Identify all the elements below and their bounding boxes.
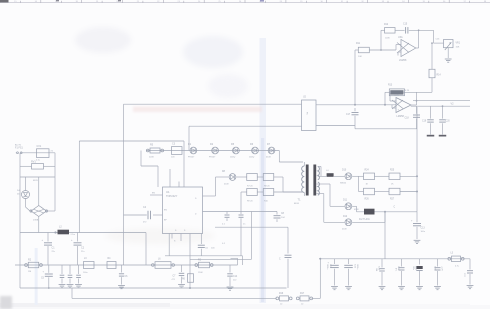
- scanner blue streak left: [35, 248, 38, 305]
- transformer T1 core: [306, 165, 316, 196]
- ghost bleed-through smudges: [75, 27, 248, 244]
- wire sec mid tap: [318, 184, 345, 206]
- svg-text:+12V: +12V: [441, 266, 443, 271]
- wire fb riser A: [380, 30, 382, 51]
- svg-text:100u: 100u: [83, 272, 87, 274]
- wire loop3 top: [79, 140, 184, 142]
- wire grid row2: [241, 191, 303, 193]
- bridge rectifier BR1: [30, 206, 48, 222]
- wire sense riser: [354, 50, 356, 105]
- ic U1 TNY266: [163, 187, 203, 234]
- optocoupler U2 PC817: [302, 96, 317, 130]
- connector J1 pins: [16, 152, 22, 154]
- svg-text:C15: C15: [403, 23, 408, 25]
- wire loop2 left: [188, 126, 190, 150]
- capacitor C4: [124, 206, 163, 223]
- wire secondary bus: [319, 258, 470, 260]
- capacitor C3: [171, 143, 182, 159]
- svg-text:11DQ: 11DQ: [230, 157, 236, 159]
- wire loop1 left: [123, 104, 125, 265]
- svg-text:C13: C13: [421, 228, 426, 230]
- wire grid right link: [282, 177, 284, 192]
- diode D11: [343, 200, 359, 211]
- svg-text:CX1: CX1: [37, 145, 42, 148]
- svg-text:C19: C19: [422, 121, 427, 123]
- wire under-ic rail2: [190, 258, 252, 260]
- ground bar C20: [439, 135, 447, 137]
- label fuse F1: [15, 143, 24, 149]
- svg-text:1000u: 1000u: [356, 264, 358, 269]
- ic pin stub top3: [157, 166, 159, 187]
- resistor R16: [276, 293, 292, 305]
- capacitor C5a small: [59, 265, 66, 288]
- svg-text:R9 20: R9 20: [247, 200, 253, 202]
- svg-text:2.2m: 2.2m: [71, 234, 76, 236]
- svg-text:SB560: SB560: [340, 183, 347, 185]
- wire bottom line C: [312, 259, 321, 299]
- svg-text:FR107: FR107: [209, 157, 216, 159]
- resistor R3: [195, 258, 213, 274]
- trimmer VR1: [444, 40, 461, 59]
- svg-text:C18: C18: [405, 117, 410, 119]
- capacitor C1: [42, 233, 56, 266]
- svg-text:IC2 TL431: IC2 TL431: [359, 219, 370, 221]
- capacitor C19: [422, 106, 434, 134]
- diode D1: [188, 143, 197, 159]
- wire rail out top: [413, 100, 470, 102]
- svg-text:1M: 1M: [28, 271, 31, 273]
- capacitor C2: [71, 233, 85, 266]
- svg-text:22u: 22u: [81, 251, 84, 253]
- svg-text:0.1u: 0.1u: [36, 160, 40, 162]
- bottom-left corner grey blob: [0, 296, 12, 309]
- wire d12 out: [352, 212, 385, 223]
- wire tl431 row: [357, 211, 418, 213]
- capacitor C8: [222, 212, 230, 226]
- svg-text:U3A: U3A: [398, 36, 403, 39]
- scanner blue streak center: [260, 38, 267, 303]
- inductor L6: [152, 258, 175, 268]
- resistor R7: [247, 174, 258, 188]
- svg-text:VR1: VR1: [456, 43, 461, 45]
- wire bias row: [203, 211, 278, 213]
- resistor R26: [364, 188, 375, 200]
- wire minus drop: [389, 91, 396, 101]
- wire sec top out2: [334, 175, 345, 177]
- ic pin stub EN: [150, 193, 163, 195]
- diode D7: [266, 143, 275, 159]
- inductor L3: [83, 258, 94, 274]
- resistor R8: [263, 174, 274, 188]
- diode D6: [249, 143, 258, 159]
- svg-text:R12: R12: [384, 24, 389, 26]
- inductor L5 output: [448, 252, 464, 267]
- svg-text:220K: 220K: [149, 157, 154, 159]
- resistor R27: [389, 188, 400, 200]
- svg-text:C14: C14: [233, 276, 238, 278]
- resistor R5: [146, 143, 163, 158]
- capacitor C24: [395, 259, 405, 290]
- label Vout: [451, 103, 455, 106]
- op-amp U3A: [397, 36, 416, 62]
- wire snubber row: [146, 150, 279, 152]
- svg-text:22u: 22u: [52, 251, 55, 253]
- wire bottom line B: [72, 297, 277, 299]
- capacitor C18: [405, 106, 421, 129]
- resistor R2: [25, 258, 43, 273]
- diode D2: [209, 143, 219, 159]
- wire vout rail: [416, 107, 418, 212]
- svg-text:LM258: LM258: [397, 115, 405, 118]
- svg-text:150K: 150K: [198, 272, 203, 274]
- capacitor C14: [227, 265, 238, 290]
- pink watermark smear: [133, 107, 262, 113]
- resistor R11: [355, 43, 401, 58]
- svg-text:TOP242Y: TOP242Y: [166, 194, 178, 198]
- label bp: [222, 243, 226, 245]
- wire source vertical: [189, 234, 191, 290]
- wire grid left drop: [240, 192, 242, 212]
- wire snubber feed: [141, 151, 158, 167]
- resistor R13 dark: [388, 84, 410, 95]
- svg-text:LM258: LM258: [399, 59, 407, 62]
- capacitor C5b small: [67, 265, 74, 288]
- wire drain loop: [215, 226, 288, 228]
- wire opto out top: [316, 104, 396, 106]
- capacitor C15: [403, 23, 434, 33]
- wire fb to out: [418, 29, 420, 48]
- ic U4 TL431: [359, 209, 375, 221]
- resistor R14: [429, 69, 441, 78]
- wire mid rung: [20, 177, 55, 182]
- svg-text:MOV: MOV: [33, 180, 39, 182]
- wire loop1 top: [124, 103, 302, 105]
- svg-text:D10: D10: [342, 170, 347, 172]
- diode D8: [222, 171, 236, 186]
- wire gnd rail right: [355, 128, 417, 130]
- wire sec row2: [359, 191, 419, 193]
- wire pot feed: [434, 30, 444, 43]
- resistor R17: [296, 293, 312, 305]
- wire bridge bottom stub: [38, 217, 40, 233]
- wire bus end drop: [231, 258, 238, 265]
- resistor R6: [182, 274, 194, 283]
- svg-text:10K: 10K: [456, 46, 460, 48]
- wire d11 out: [352, 206, 356, 212]
- svg-text:EN: EN: [152, 193, 155, 195]
- wire U3A inputs: [398, 52, 401, 56]
- svg-text:R27: R27: [390, 199, 395, 201]
- capacitor C5c small: [75, 265, 82, 288]
- wire interstage2: [431, 78, 433, 93]
- capacitor C21 electrolytic: [326, 259, 339, 290]
- capacitor C25 electrolytic dark: [412, 259, 423, 290]
- wire grid row1: [236, 176, 283, 178]
- svg-text:4.7u: 4.7u: [455, 266, 459, 268]
- capacitor C9: [239, 212, 247, 256]
- svg-text:R25: R25: [390, 169, 395, 171]
- wire fb drop: [384, 212, 386, 259]
- capacitor C22 electrolytic: [344, 259, 358, 290]
- svg-text:100K: 100K: [385, 38, 390, 40]
- wire loop3 right drop: [183, 141, 185, 187]
- capacitor C20: [439, 106, 450, 134]
- svg-text:R13: R13: [388, 84, 393, 86]
- svg-text:PC: PC: [306, 112, 308, 115]
- wire right rail: [48, 153, 55, 211]
- capacitor C7: [172, 265, 185, 288]
- resistor R24: [364, 169, 375, 185]
- wire ic pin drop x165: [168, 234, 170, 256]
- ground bar C19: [427, 135, 435, 137]
- capacitor C6b bypass: [198, 234, 216, 256]
- svg-text:100u: 100u: [421, 231, 425, 233]
- capacitor C5 electrolytic: [41, 265, 53, 288]
- inductor FB2 bead: [326, 170, 334, 177]
- wire sec top out: [318, 175, 327, 177]
- resistor RV1: [20, 161, 55, 169]
- svg-text:R8 20: R8 20: [264, 185, 270, 187]
- svg-text:R17: R17: [300, 293, 305, 295]
- wire vertical x146: [145, 233, 147, 266]
- wire drain row: [203, 177, 229, 196]
- diode D12: [342, 216, 352, 230]
- wire sec row1: [352, 175, 418, 177]
- transformer secondary bottom winding: [316, 182, 319, 195]
- op-amp U3B: [392, 94, 411, 118]
- svg-text:C20: C20: [446, 121, 451, 123]
- svg-text:10K: 10K: [358, 56, 362, 58]
- diode D4: [17, 177, 30, 211]
- svg-text:471: 471: [395, 268, 397, 271]
- svg-text:U3B: U3B: [394, 94, 399, 97]
- wire interstage: [431, 42, 433, 69]
- svg-text:RV1: RV1: [31, 161, 36, 164]
- capacitor C10: [274, 212, 286, 223]
- wire primary bottom link: [283, 191, 303, 193]
- resistor R10: [263, 189, 274, 203]
- capacitor C13 electrolytic: [411, 212, 425, 244]
- svg-text:D12: D12: [343, 216, 348, 218]
- svg-text:U1: U1: [166, 190, 170, 194]
- svg-text:4.7K: 4.7K: [405, 90, 410, 92]
- svg-text:D3SB: D3SB: [33, 220, 39, 222]
- capacitor C26: [434, 259, 443, 290]
- ic pin stub top2: [178, 182, 180, 188]
- capacitor C23: [375, 259, 385, 290]
- svg-text:R26: R26: [365, 199, 370, 201]
- resistor R9: [247, 189, 258, 203]
- resistor R4: [107, 258, 116, 268]
- wire U3B out: [411, 92, 418, 105]
- wire left rail: [19, 153, 21, 288]
- wire fb row B: [385, 91, 432, 93]
- diode D10: [340, 170, 352, 185]
- ic pin stub top1: [169, 169, 171, 187]
- transformer secondary top winding: [318, 167, 321, 180]
- wire loop2 top: [189, 125, 302, 127]
- wire bottom line A: [20, 287, 287, 289]
- wire sec bottom tap: [318, 194, 345, 223]
- wire under-ic rail: [165, 256, 243, 265]
- wire rail out bottom: [411, 105, 470, 107]
- capacitor C17: [346, 108, 359, 126]
- svg-text:C17: C17: [346, 114, 351, 116]
- wire ac top: [21, 152, 55, 154]
- wire U3A out: [416, 47, 419, 49]
- svg-text:FR107: FR107: [188, 157, 195, 159]
- svg-text:F1 FS1: F1 FS1: [15, 147, 24, 150]
- wire cap drop: [279, 227, 292, 288]
- wire snub drop: [251, 212, 253, 260]
- svg-text:104: 104: [375, 268, 377, 271]
- svg-text:R24: R24: [365, 169, 370, 171]
- capacitor C27: [463, 259, 473, 289]
- wire dc bus upper: [20, 232, 146, 234]
- wire bridge top stub: [38, 177, 40, 206]
- wire snubber to primary: [279, 151, 303, 163]
- ic pin stubs bottom: [172, 234, 181, 243]
- ruler at top edge: [0, 0, 490, 3]
- wire opto out bottom: [316, 126, 355, 129]
- svg-text:100u: 100u: [412, 266, 414, 270]
- wire loop3 left: [78, 141, 80, 233]
- node junction bead-left: [54, 231, 56, 233]
- svg-text:R7 20: R7 20: [247, 185, 253, 187]
- svg-text:R14: R14: [437, 75, 442, 77]
- ground VR1: [445, 59, 452, 62]
- wire bottom jog: [71, 288, 73, 298]
- svg-text:R16: R16: [279, 293, 284, 295]
- transformer primary winding: [294, 162, 304, 205]
- resistor R25: [389, 169, 400, 185]
- capacitor C6 small: [118, 265, 128, 289]
- wire plus jog: [392, 105, 396, 108]
- wire sec row link: [358, 176, 360, 191]
- svg-text:11DQ: 11DQ: [249, 157, 255, 159]
- svg-text:1000u: 1000u: [326, 264, 328, 269]
- wire primary gnd bus: [15, 264, 238, 266]
- wire fb riser B: [384, 92, 386, 105]
- inductor L2 ferrite bead: [58, 225, 76, 235]
- svg-text:AC IN: AC IN: [15, 143, 21, 146]
- capacitor CX1: [36, 145, 54, 162]
- diode D5: [230, 143, 239, 159]
- resistor R12: [381, 24, 405, 39]
- label c label: [394, 206, 396, 208]
